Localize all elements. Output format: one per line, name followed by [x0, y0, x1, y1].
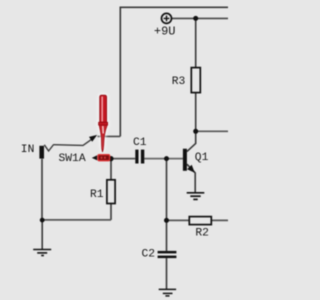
svg-text:C2: C2 [142, 249, 156, 261]
svg-text:R1: R1 [90, 189, 104, 201]
svg-text:C1: C1 [133, 137, 147, 149]
svg-text:IN: IN [21, 144, 35, 156]
svg-text:R2: R2 [195, 228, 209, 240]
svg-text:SW1A: SW1A [59, 153, 86, 165]
svg-text:+9U: +9U [154, 25, 176, 39]
svg-text:R3: R3 [172, 76, 186, 88]
svg-text:Q1: Q1 [195, 152, 209, 164]
